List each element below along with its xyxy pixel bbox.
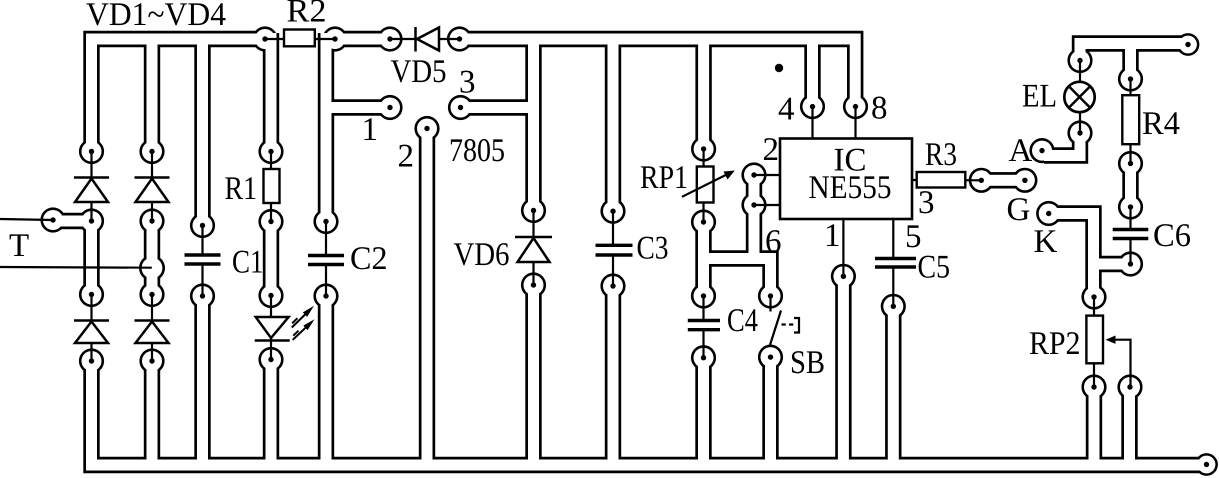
pad NE555 pins 2 and 6 double pad (outer) (741, 162, 766, 187)
wire RP1 bottom pad to C4 top pad (channel) (698, 222, 709, 296)
wire R1 column drop from R2 left pad (outline) (263, 33, 279, 152)
pad VD3 anode (inner) (82, 351, 102, 371)
pad SB top (outer ring) (758, 283, 783, 308)
wire C1 bottom to bottom bus (channel) (197, 296, 208, 465)
pad NE555 pin 1 (inner) (833, 266, 853, 286)
diode VD5 (390, 27, 460, 52)
pad VD6 anode (dot) (531, 282, 536, 287)
wire node jumper RP1 column to SB top pad (outline) (704, 259, 771, 297)
pad C2 top (inner) (316, 212, 336, 232)
pad R2 right (outer ring) (322, 26, 347, 51)
pad RP1 bottom (dot) (701, 219, 706, 224)
pad supply top right (dot) (1185, 42, 1190, 47)
pad T input (inner) (43, 210, 63, 230)
potentiometer RP2 (1086, 297, 1103, 387)
pad C5 bottom (inner) (883, 296, 903, 316)
pad R1 bottom (outer ring) (258, 209, 283, 234)
wire C3 bottom to bottom bus (channel) (608, 286, 619, 465)
label T (10, 234, 29, 256)
pad 7805 pin 3 (dot) (458, 105, 463, 110)
wire C4 bottom to bottom bus (outline) (695, 358, 711, 465)
wire EL bottom pad to A pad (channel) (1044, 133, 1080, 156)
pad C3 top (dot) (610, 209, 615, 214)
wire branch down to R4 top pad (outline) (1122, 44, 1138, 80)
wire branch down to RP1 top pad (channel) (698, 39, 709, 149)
pad VD5 cathode (dot) (457, 36, 462, 41)
label SB (792, 351, 824, 373)
transformer T upper lead wire (0, 219, 53, 220)
pad VD2 cathode (dot) (149, 149, 154, 154)
wire column 2 drop from top bus (outline) (144, 39, 160, 152)
pad VD5 cathode (outer ring) (447, 26, 472, 51)
node label G (1008, 198, 1029, 220)
pad R4 bottom (outer ring) (1118, 151, 1143, 176)
pad LED cathode (outer ring) (258, 347, 283, 372)
pad R2 right (dot) (332, 36, 337, 41)
joint bubble on column 2 (outer) (139, 255, 165, 281)
label C4 (728, 309, 757, 331)
diode VD6 (515, 211, 552, 286)
wire column 2 middle segment (channel) (147, 221, 158, 295)
wire branch down to VD6 cathode pad (outline) (525, 39, 541, 211)
pad C1 top (outer ring) (190, 213, 215, 238)
pad NE555 pin 8 (outer ring) (843, 94, 868, 119)
wire C2 bottom to bottom bus (channel) (321, 296, 332, 465)
wire C2 column drop from R2 right pad (channel) (321, 33, 332, 222)
pad R4 top (outer ring) (1118, 66, 1143, 91)
resistor R1 (264, 152, 280, 222)
pad VD2 anode (outer ring) (139, 208, 164, 233)
diode VD4 (135, 295, 170, 362)
wire bottom bus with column 1 drop (outline) (92, 361, 1207, 465)
transformer T lower lead wire (0, 266, 152, 269)
wire G pad to RP2 top pad (node K) (channel) (1049, 214, 1094, 298)
pad NE555 pin 8 (dot) (853, 104, 858, 109)
wire C2 bottom to bottom bus (outline) (318, 296, 334, 465)
wire column 2 drop from top bus (channel) (147, 39, 158, 152)
wire column 2 to bottom bus (channel) (147, 361, 158, 465)
pin number 2 of NE555 (764, 138, 777, 160)
pin number 6 of NE555 (766, 230, 780, 252)
pad VD4 anode (dot) (149, 358, 154, 363)
wire top bus right section ending at NE555 pin 8 pad (outline) (460, 39, 856, 107)
label 7805 (451, 139, 504, 161)
wire column 1 middle segment (channel) (86, 221, 97, 295)
wire R4 bottom pad to C6 top pad (outline) (1122, 164, 1138, 208)
label C3 (638, 237, 668, 259)
wire NE555 pin 1 pad to bottom bus (outline) (835, 276, 851, 465)
pad A (dot) (1039, 148, 1044, 153)
pad SB bottom (dot) (768, 354, 773, 359)
resistor R2 (265, 30, 335, 47)
pad R2 right (inner) (325, 29, 345, 49)
wire C6 bottom pad to node K (channel) (1094, 259, 1131, 270)
pad NE555 pin 4 (dot) (810, 104, 815, 109)
pad RP2 bottom (dot) (1091, 384, 1096, 389)
pad VD5 anode (dot) (387, 36, 392, 41)
pin number 1 of NE555 (827, 224, 839, 246)
pad R1 bottom (dot) (268, 219, 273, 224)
pad RP2 wiper (inner) (1120, 377, 1140, 397)
wire LED cathode to bottom bus (outline) (263, 360, 279, 466)
pad VD1 anode (dot) (89, 218, 94, 223)
wire SB bottom to bottom bus (outline) (762, 357, 778, 465)
junction dot above pin 4 (775, 64, 783, 72)
wire VD6 anode to bottom bus (outline) (525, 285, 541, 465)
wire C1 bottom to bottom bus (outline) (194, 296, 210, 465)
pad EL bottom (dot) (1077, 130, 1082, 135)
wire T input pad to bridge column 1 (channel) (53, 216, 92, 227)
wire branch to NE555 pin 4 pad (outline) (804, 39, 820, 107)
pad VD6 anode (inner) (524, 275, 544, 295)
pad EL top (inner) (1070, 51, 1090, 71)
pad VD1 cathode (inner) (82, 142, 102, 162)
wire node jumper RP1 column to SB top pad (channel) (704, 259, 771, 297)
wire branch down to R4 top pad (channel) (1125, 44, 1136, 80)
node label A (1009, 139, 1032, 161)
wire R1 column drop from R2 left pad (channel) (266, 33, 277, 152)
pad C4 bottom (inner) (694, 348, 714, 368)
pad NE555 pin 1 (outer ring) (831, 264, 856, 289)
pad C4 top (inner) (694, 286, 714, 306)
pad C2 top (dot) (323, 219, 328, 224)
wire pin 2 double pad down to jumper (outline) (746, 205, 762, 259)
label RP2 (1030, 332, 1079, 354)
pad VD1 cathode (outer ring) (79, 139, 104, 164)
pad C4 top (outer ring) (691, 283, 716, 308)
pad T input (dot) (50, 217, 55, 222)
wire 7805 pin 2 pad down to bottom bus (channel) (422, 129, 433, 466)
pad 7805 pin 1 (dot) (387, 105, 392, 110)
wire branch to 7805 pin 3 pad (channel) (461, 102, 534, 113)
pad 7805 pin 2 (inner) (417, 119, 437, 139)
pad VD6 cathode (inner) (524, 201, 544, 221)
NE555 pin 2 lead (754, 174, 780, 176)
wire C2 column drop from R2 right pad (outline) (318, 33, 334, 222)
wire EL top pad to supply pad top right (outline) (1080, 44, 1188, 61)
pad 7805 pin 2 (outer ring) (414, 116, 439, 141)
pad R4 bottom (inner) (1121, 154, 1141, 174)
pad LED anode (outer ring) (258, 283, 283, 308)
pad SB top (inner) (761, 286, 781, 306)
wire top bus left section with column 1 drop (channel) (92, 39, 266, 152)
pad RP1 top (dot) (701, 146, 706, 151)
wire column 2 middle segment (outline) (144, 221, 160, 295)
lamp EL (1064, 61, 1094, 134)
pad 7805 pin 1 (outer ring) (377, 95, 402, 120)
pad C4 top (dot) (701, 293, 706, 298)
joint bubble on column 2 (inner) (142, 258, 163, 279)
pin number 4 of NE555 (779, 98, 794, 120)
capacitor C3 (596, 211, 633, 286)
pad VD2 anode (dot) (149, 218, 154, 223)
pad VD6 anode (outer ring) (521, 272, 546, 297)
pad VD6 cathode (dot) (531, 208, 536, 213)
pad VD1 cathode (dot) (89, 149, 94, 154)
pad return bottom right (dot) (1204, 462, 1209, 467)
wire T input pad to bridge column 1 (outline) (53, 213, 92, 229)
label R1 (225, 177, 255, 199)
pad C6 bottom (inner) (1121, 254, 1141, 274)
wire branch to NE555 pin 4 pad (channel) (807, 39, 818, 107)
wire 7805 pin 2 pad down to bottom bus (outline) (419, 129, 435, 466)
capacitor C4 (688, 296, 720, 358)
pad RP1 top (outer ring) (691, 136, 716, 161)
pad A (inner) (1032, 141, 1052, 161)
wire column 1 middle segment (outline) (83, 221, 99, 295)
pad C2 bottom (dot) (323, 293, 328, 298)
pad SB bottom (outer ring) (758, 345, 783, 370)
wire RP2 bottom pad to bottom bus (channel) (1089, 387, 1100, 465)
pad C3 top (inner) (603, 201, 623, 221)
label NE555 (809, 176, 890, 198)
wire branch to 7805 pin 3 pad (outline) (461, 99, 534, 115)
pad G (dot) (1046, 211, 1051, 216)
pad VD2 cathode (outer ring) (139, 139, 164, 164)
pad C2 bottom (outer ring) (313, 283, 338, 308)
pad VD3 cathode (outer ring) (79, 282, 104, 307)
pin number 3 of 7805 (461, 71, 475, 93)
pad G (outer ring) (1036, 201, 1061, 226)
pad VD4 cathode (outer ring) (139, 282, 164, 307)
pad NE555 pins 2 and 6 double pad (inner) (744, 165, 764, 185)
resistor R3 (912, 172, 981, 188)
pad C6 top (inner) (1121, 197, 1141, 217)
pad C6 bottom (dot) (1128, 261, 1133, 266)
capacitor C1 (185, 226, 221, 297)
wire G pad to RP2 top pad (node K) (outline) (1049, 214, 1094, 298)
pad VD5 cathode (inner) (450, 29, 470, 49)
wire column 2 to bottom bus (outline) (144, 361, 160, 465)
wire LED cathode to bottom bus (channel) (266, 360, 277, 466)
pad R1 top (dot) (268, 149, 273, 154)
timer IC U1 NE555 box (780, 139, 912, 220)
pad R4 bottom (dot) (1128, 161, 1133, 166)
RP2 wiper arrow and lead to wiper pad (1106, 336, 1131, 388)
wire branch down to C3 top pad (outline) (605, 39, 621, 211)
pad RP2 top (dot) (1091, 294, 1096, 299)
pad RP1 bottom (outer ring) (691, 209, 716, 234)
pad VD2 anode (inner) (142, 211, 162, 231)
pad VD3 anode (dot) (89, 358, 94, 363)
pad RP2 bottom (inner) (1084, 377, 1104, 397)
pad R2 left (inner) (255, 29, 275, 49)
wire R4 bottom pad to C6 top pad (channel) (1125, 164, 1136, 208)
pad VD4 cathode (dot) (149, 292, 154, 297)
wire C3 bottom to bottom bus (outline) (605, 286, 621, 465)
pad VD1 anode (inner) (82, 211, 102, 231)
LED indicator diode with light arrows (255, 296, 315, 360)
wire RP1 bottom pad to C4 top pad (outline) (695, 222, 711, 296)
pad EL bottom (outer ring) (1067, 120, 1092, 145)
resistor R4 (1122, 79, 1139, 164)
pad RP2 wiper (dot) (1127, 384, 1132, 389)
label RP1 (641, 166, 687, 188)
pad VD5 anode (outer ring) (377, 26, 402, 51)
NE555 pin 6 lead (754, 204, 780, 206)
pad NE555 pin 4 (outer ring) (800, 94, 825, 119)
pad EL top (dot) (1077, 58, 1082, 63)
pad C5 bottom (outer ring) (881, 294, 906, 319)
switch SB (770, 296, 799, 345)
pad VD4 anode (outer ring) (139, 348, 164, 373)
pad C3 bottom (inner) (603, 276, 623, 296)
wire RP2 bottom pad to bottom bus (outline) (1086, 387, 1102, 465)
pad C2 top (outer ring) (313, 209, 338, 234)
pad return bottom right (inner) (1198, 456, 1216, 474)
pad EL top (outer ring) (1067, 48, 1092, 73)
pin number 2 of 7805 (399, 145, 412, 167)
wire R1 bottom pad to LED anode pad (outline) (263, 222, 279, 296)
label R3 (926, 143, 956, 165)
pad R4 top (dot) (1128, 76, 1133, 81)
pad R2 left (outer ring) (252, 26, 277, 51)
NE555 pin 4 lead (811, 107, 813, 139)
pad VD4 cathode (inner) (142, 285, 162, 305)
wire pin 2 double pad down to jumper (channel) (749, 205, 760, 259)
wire column 3 drop from top bus to C1 (channel) (197, 39, 208, 226)
label R2 (287, 0, 324, 21)
pin number 1 of 7805 (364, 118, 376, 140)
pad VD3 anode (outer ring) (79, 348, 104, 373)
label IC (835, 149, 865, 171)
wire RP2 wiper pad to bottom bus (channel) (1124, 387, 1135, 465)
pad 7805 pin 2 (dot) (424, 126, 429, 131)
pad NE555 pin 4 (inner) (803, 97, 823, 117)
pad A (outer ring) (1029, 138, 1054, 163)
pad R3 output island double pad (inner) (971, 170, 991, 190)
wire EL bottom pad to A pad (outline) (1044, 133, 1080, 156)
NE555 pin 8 lead (854, 107, 856, 139)
pad C4 bottom (dot) (701, 355, 706, 360)
pad EL bottom (inner) (1070, 123, 1090, 143)
pad C3 bottom (dot) (610, 283, 615, 288)
label C2 (351, 247, 385, 269)
wire column 3 drop from top bus to C1 (outline) (194, 39, 210, 226)
pad VD6 cathode (outer ring) (521, 198, 546, 223)
pad R1 top (outer ring) (258, 139, 283, 164)
wire C5 bottom to bottom bus (channel) (888, 306, 899, 465)
wire R2 right pad to VD5 anode pad (channel) (327, 34, 390, 45)
pad LED anode (dot) (268, 293, 273, 298)
wire C6 bottom pad to node K (outline) (1094, 256, 1131, 272)
pad C1 top (inner) (193, 216, 213, 236)
pin number 8 of NE555 (872, 97, 886, 119)
label C6 (1154, 224, 1190, 246)
pad VD5 anode (inner) (380, 29, 400, 49)
label EL (1023, 85, 1055, 107)
pad C3 bottom (outer ring) (600, 273, 625, 298)
pad VD1 anode (outer ring) (79, 208, 104, 233)
pad VD3 cathode (inner) (82, 285, 102, 305)
pad C3 top (outer ring) (600, 199, 625, 224)
wire bottom bus with column 1 drop (channel) (92, 361, 1207, 465)
label C1 (233, 251, 262, 273)
pad VD4 anode (inner) (142, 351, 162, 371)
wire branch down to RP1 top pad (outline) (695, 39, 711, 149)
wire SB bottom to bottom bus (channel) (765, 357, 776, 465)
pad C2 bottom (inner) (316, 286, 336, 306)
pad RP2 wiper (outer ring) (1117, 374, 1142, 399)
wire R1 bottom pad to LED anode pad (channel) (266, 222, 277, 296)
wire C5 bottom to bottom bus (outline) (885, 306, 901, 465)
wire VD6 anode to bottom bus (channel) (528, 285, 539, 465)
pad SB bottom (inner) (761, 347, 781, 367)
pad C6 bottom (outer ring) (1118, 251, 1143, 276)
wire branch to 7805 pin 1 pad (outline) (326, 99, 390, 115)
pad supply top right (outer ring) (1177, 33, 1200, 56)
label VD6 (454, 243, 509, 265)
pad NE555 pin 8 (inner) (846, 97, 866, 117)
wire branch down to C3 top pad (channel) (608, 39, 619, 211)
pad C1 bottom (outer ring) (190, 283, 215, 308)
pin number 5 of NE555 (907, 225, 920, 247)
pad NE555 pins 2 and 6 double pad (dots) (751, 172, 756, 177)
pad C1 bottom (inner) (193, 286, 213, 306)
wire top bus left section with column 1 drop (outline) (92, 39, 266, 152)
diode VD3 (74, 295, 109, 362)
pad T input (outer ring) (40, 207, 65, 232)
wire branch to 7805 pin 1 pad (channel) (326, 102, 390, 113)
pad C5 bottom (dot) (891, 304, 896, 309)
wire RP2 wiper pad to bottom bus (outline) (1121, 387, 1137, 465)
wire branch down to VD6 cathode pad (channel) (528, 39, 539, 211)
pad R3 output island double pad (dots) (979, 178, 984, 183)
pad C1 top (dot) (200, 223, 205, 228)
pad 7805 pin 1 (inner) (380, 98, 400, 118)
pad C6 top (dot) (1128, 204, 1133, 209)
pad R2 left (dot) (262, 36, 267, 41)
pad R1 bottom (inner) (261, 212, 281, 232)
pad RP2 top (inner) (1084, 287, 1104, 307)
pad SB top (dot) (768, 293, 773, 298)
wire EL top pad to supply pad top right (channel) (1080, 44, 1188, 61)
pad C6 top (outer ring) (1118, 194, 1143, 219)
capacitor C2 (308, 222, 344, 297)
pad RP2 top (outer ring) (1081, 284, 1106, 309)
pad LED cathode (dot) (268, 357, 273, 362)
NE555 pin 1 lead (842, 219, 844, 276)
pad RP2 bottom (outer ring) (1081, 374, 1106, 399)
pad RP1 bottom (inner) (694, 212, 714, 232)
label C5 (919, 256, 949, 278)
wire R2 right pad to VD5 anode pad (outline) (327, 31, 390, 47)
wire top bus right section ending at NE555 pin 8 pad (channel) (460, 39, 856, 107)
potentiometer RP1 (682, 149, 735, 222)
pad LED anode (inner) (261, 286, 281, 306)
wire NE555 pin 1 pad to bottom bus (channel) (838, 276, 849, 465)
diode VD1 (74, 152, 109, 222)
pad C4 bottom (outer ring) (691, 345, 716, 370)
pad supply top right (inner) (1179, 36, 1197, 54)
capacitor C6 (1113, 207, 1149, 264)
pad G (inner) (1039, 204, 1059, 224)
pad RP1 top (inner) (694, 139, 714, 159)
pad 7805 pin 3 (outer ring) (448, 95, 473, 120)
pad R3 output island double pad (outer) (969, 168, 994, 193)
label VD1~VD4 (86, 3, 225, 25)
node label K (1034, 230, 1057, 252)
pad R4 top (inner) (1121, 69, 1141, 89)
pad LED cathode (inner) (261, 350, 281, 370)
pad VD3 cathode (dot) (89, 292, 94, 297)
pad 7805 pin 3 (inner) (451, 98, 471, 118)
wire C4 bottom to bottom bus (channel) (698, 358, 709, 465)
label VD5 (391, 60, 446, 82)
diode VD2 (135, 152, 170, 222)
pad R1 top (inner) (261, 142, 281, 162)
pad VD2 cathode (inner) (142, 142, 162, 162)
